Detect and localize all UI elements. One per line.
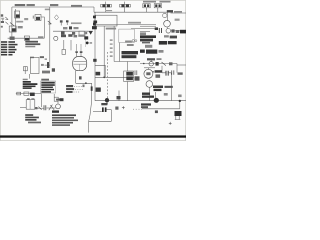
- label small: [16, 21, 23, 23]
- marks below-left of WM: [24, 18, 28, 20]
- C3 relay box: [124, 71, 134, 82]
- wire top bus left y7: [12, 6, 94, 8]
- wire y83.3 branch: [76, 82, 92, 84]
- capacitor C1: [166, 71, 168, 76]
- wire cap left feed: [161, 66, 163, 73]
- fuse F2: [120, 2, 131, 13]
- wire y61.5 run: [114, 61, 140, 63]
- switch on x49.8: [48, 21, 52, 24]
- junction dot y63.5: [143, 63, 145, 65]
- label left mid 2: [96, 88, 101, 92]
- box2 small right: [119, 29, 135, 42]
- junction dot x104.2: [103, 76, 105, 78]
- switch on x11.9: [10, 23, 14, 26]
- marks below y108.8 wire: [155, 110, 158, 113]
- comp on x25.2: [24, 67, 28, 71]
- capacitor C2: [172, 70, 174, 74]
- wire x111.4 drop: [110, 112, 112, 122]
- node mark lower: [1, 26, 3, 28]
- wire switch run to circle: [47, 107, 56, 109]
- D1 box component: [26, 100, 35, 110]
- D2 legend rows: [52, 114, 78, 126]
- label 9 mark: [115, 107, 118, 110]
- B2/A2 comps below y31 bus: [61, 32, 65, 35]
- blob left edge lower: [93, 23, 96, 26]
- plug P1: [143, 4, 150, 13]
- comp on y38 left: [10, 37, 15, 40]
- label on y38 right: [38, 36, 43, 38]
- plus mark: [122, 106, 125, 109]
- big junction blob on bus: [154, 98, 159, 103]
- wire y31.3 short: [140, 30, 150, 32]
- marks above D1 box: [27, 98, 30, 99]
- wire y65.3 mid-left: [95, 65, 105, 77]
- frame border: [0, 0, 185, 140]
- wire B2 cluster stubs: [64, 40, 71, 50]
- wire y31.2 bus: [53, 30, 93, 32]
- wire x41.7 drop: [41, 94, 43, 107]
- dark bar right edge: [180, 30, 186, 34]
- diagonal sensor chain: [93, 21, 97, 24]
- C2 comp box lower: [54, 97, 58, 101]
- wire y28.6 right part: [171, 30, 180, 32]
- wire x25.2 drop: [24, 67, 26, 75]
- wire cap links: [162, 72, 171, 74]
- wire x104.2 drop to bus: [103, 26, 105, 77]
- light marks near caps: [164, 93, 168, 96]
- marks on y63.5: [169, 62, 173, 65]
- legend table right rows: [41, 82, 55, 93]
- wire vertical x15.3: [14, 9, 16, 30]
- wire left vertical x11.9: [11, 7, 13, 38]
- wire compressor stubs: [77, 53, 81, 57]
- tall relay box: [31, 58, 40, 74]
- wire x49.8 vertical: [49, 7, 51, 68]
- junction dot right: [179, 100, 181, 102]
- dark box on y63.5: [156, 62, 159, 66]
- wire x171.3 long drop: [170, 73, 172, 101]
- label top C4: [153, 71, 155, 73]
- wire y28.6 run: [131, 28, 157, 30]
- motor M3 circle top right: [164, 20, 171, 27]
- fuse F1: [101, 2, 112, 13]
- wire y67.8 short: [144, 67, 155, 69]
- wire y108.8 run: [142, 108, 180, 110]
- legend table right title: [41, 79, 49, 81]
- label left mid: [96, 72, 101, 76]
- diode small x56: [55, 15, 59, 20]
- text left of M3: [175, 19, 180, 21]
- comp bar x61: [60, 20, 63, 22]
- label right of fan: [155, 70, 162, 73]
- B3 dark label rows: [122, 51, 139, 58]
- cluster marks y27-34: [155, 27, 158, 30]
- defrost timer box: [95, 15, 117, 26]
- plug slashes: [49, 105, 54, 111]
- wire x95 main vertical: [94, 12, 96, 101]
- ground symbol: [1, 18, 4, 21]
- wire y93.6 left run: [16, 93, 42, 95]
- breaker CB1 box: [15, 11, 20, 18]
- wire y65 right stub: [177, 64, 186, 66]
- wire tall box stub: [45, 64, 50, 66]
- label 2: [41, 64, 44, 66]
- wire right slanted vertical: [89, 83, 92, 132]
- B3 small marks column: [110, 40, 113, 41]
- wire x155 drop: [155, 92, 157, 98]
- marks above tall box: [30, 57, 34, 59]
- wire x119 drop: [118, 91, 120, 101]
- blob left edge upper: [93, 16, 96, 19]
- label left edge y59: [93, 59, 96, 62]
- comp mid on wire: [24, 92, 29, 95]
- legend table left rows: [1, 41, 18, 55]
- label TB: [18, 26, 23, 28]
- marks above lamp: [56, 99, 61, 101]
- wire top right corner drop: [167, 12, 169, 20]
- wire y121.3 run: [89, 120, 112, 122]
- motor circle 2: [146, 81, 153, 88]
- wire compressor terminal feeds: [77, 44, 81, 51]
- wire y107.4 into box: [20, 106, 26, 108]
- plug labels: [143, 1, 156, 3]
- wire x177 segment: [176, 64, 178, 73]
- box on y93.6 wire: [17, 92, 21, 95]
- terminal dots above compressor: [75, 51, 77, 53]
- B2 cluster marks: [61, 35, 66, 38]
- label right dark above y13: [167, 10, 173, 12]
- legend table right box: [41, 81, 56, 93]
- label on bus top: [106, 10, 112, 11]
- wire circle stem: [57, 100, 59, 104]
- component K1 box: [9, 26, 16, 32]
- label DP-30A: [15, 4, 26, 6]
- dark segment left edge x47: [47, 62, 49, 68]
- label under box: [106, 28, 116, 30]
- wire x127.6 below box: [127, 82, 129, 101]
- plus mark bottom: [169, 122, 172, 125]
- wire fan stem: [147, 68, 149, 70]
- dark blob on wire: [30, 93, 35, 96]
- C2 leader rows: [66, 85, 83, 93]
- dark segment on right vertical: [91, 86, 93, 90]
- wire x114.1 drop: [113, 26, 115, 62]
- text under y31: [140, 32, 146, 35]
- wire y26.2 mid: [140, 25, 156, 27]
- label 2P: [27, 4, 35, 6]
- pilot lamp circle: [56, 104, 61, 109]
- terminal N: [1, 14, 3, 16]
- wire x119.7 drop: [119, 43, 121, 62]
- wire y38.2 bus: [8, 37, 45, 39]
- wire x29.6 drop: [29, 74, 31, 79]
- fan motor circle: [144, 69, 153, 78]
- wire faint x85.3: [84, 31, 86, 47]
- marks top right of area: [42, 71, 50, 74]
- plug P2: [154, 4, 161, 13]
- legend small title: [23, 79, 28, 81]
- label right of bus: [50, 4, 58, 6]
- label RD-30 on bus: [71, 5, 82, 7]
- marks right of tall box: [40, 56, 44, 58]
- cap pair D1: [44, 105, 46, 110]
- D2 legend title: [52, 110, 59, 112]
- switch on y108: [38, 107, 41, 110]
- B4 text block r1: [140, 35, 177, 54]
- wire x54.2 drop: [53, 94, 55, 97]
- wire x127.6 box feed: [127, 62, 129, 72]
- label M2: [178, 72, 183, 74]
- relay WM box: [35, 15, 41, 21]
- terminal L: [1, 21, 4, 23]
- wire compressor down x75.7: [75, 71, 77, 84]
- dot leaders: [133, 108, 142, 110]
- wire box to switches: [35, 107, 44, 109]
- legend right rows: [25, 41, 40, 48]
- wire bus y77.3: [95, 76, 134, 78]
- wire top bus jog: [93, 7, 95, 12]
- blob at dash line bottom: [105, 98, 109, 103]
- switch on y63.5: [162, 62, 166, 66]
- wire y24.5 long: [96, 24, 156, 26]
- wire x179.8 drop: [179, 101, 181, 109]
- wire motor2 drop: [148, 87, 150, 100]
- labels in box2: [125, 41, 132, 43]
- switch S1: [5, 17, 8, 20]
- D3 label rows: [141, 103, 151, 108]
- compressor COMP: [73, 57, 87, 71]
- B3 dashed linkage line: [107, 52, 109, 105]
- wire y13 right stub: [171, 12, 187, 14]
- run capacitor D3: [102, 107, 111, 112]
- comp bar x67: [66, 20, 69, 22]
- wire bus y100.7: [95, 100, 186, 102]
- small circle component x164.8: [163, 13, 167, 17]
- marks beside down-wire: [79, 76, 82, 79]
- junction dot y83.3: [85, 82, 87, 84]
- comps right of box: [135, 70, 137, 75]
- wire WM to drop: [41, 17, 44, 38]
- C4 text rows: [142, 86, 173, 98]
- wire right circuit y63.5: [140, 63, 177, 65]
- legend block rows: [23, 81, 38, 89]
- C2 dark marks lower: [60, 98, 64, 101]
- label row x128 y22: [128, 22, 141, 24]
- tick left of WM: [32, 16, 34, 19]
- overload box D4: [175, 111, 182, 116]
- bottom black bar: [0, 135, 186, 137]
- label right of cluster: [78, 35, 85, 37]
- label right: [71, 22, 82, 24]
- label TM near x49.8: [45, 9, 50, 11]
- cluster row y27: [63, 27, 67, 29]
- D1 legend rows: [25, 114, 41, 123]
- wire top bus right y12.2: [94, 11, 168, 13]
- comp on y38 mid: [24, 36, 29, 40]
- labels above right circuit: [147, 58, 155, 60]
- wire cap feed y111.4: [93, 110, 102, 112]
- wire circle to cluster: [166, 27, 168, 29]
- switch S2: [5, 22, 8, 25]
- blob on x119: [117, 96, 121, 99]
- comp small on y108: [35, 107, 37, 109]
- contact circle on y63.5: [149, 62, 153, 66]
- B2 circle small: [54, 36, 58, 40]
- text under bus left: [101, 103, 107, 105]
- comp left of compressor: [62, 50, 66, 55]
